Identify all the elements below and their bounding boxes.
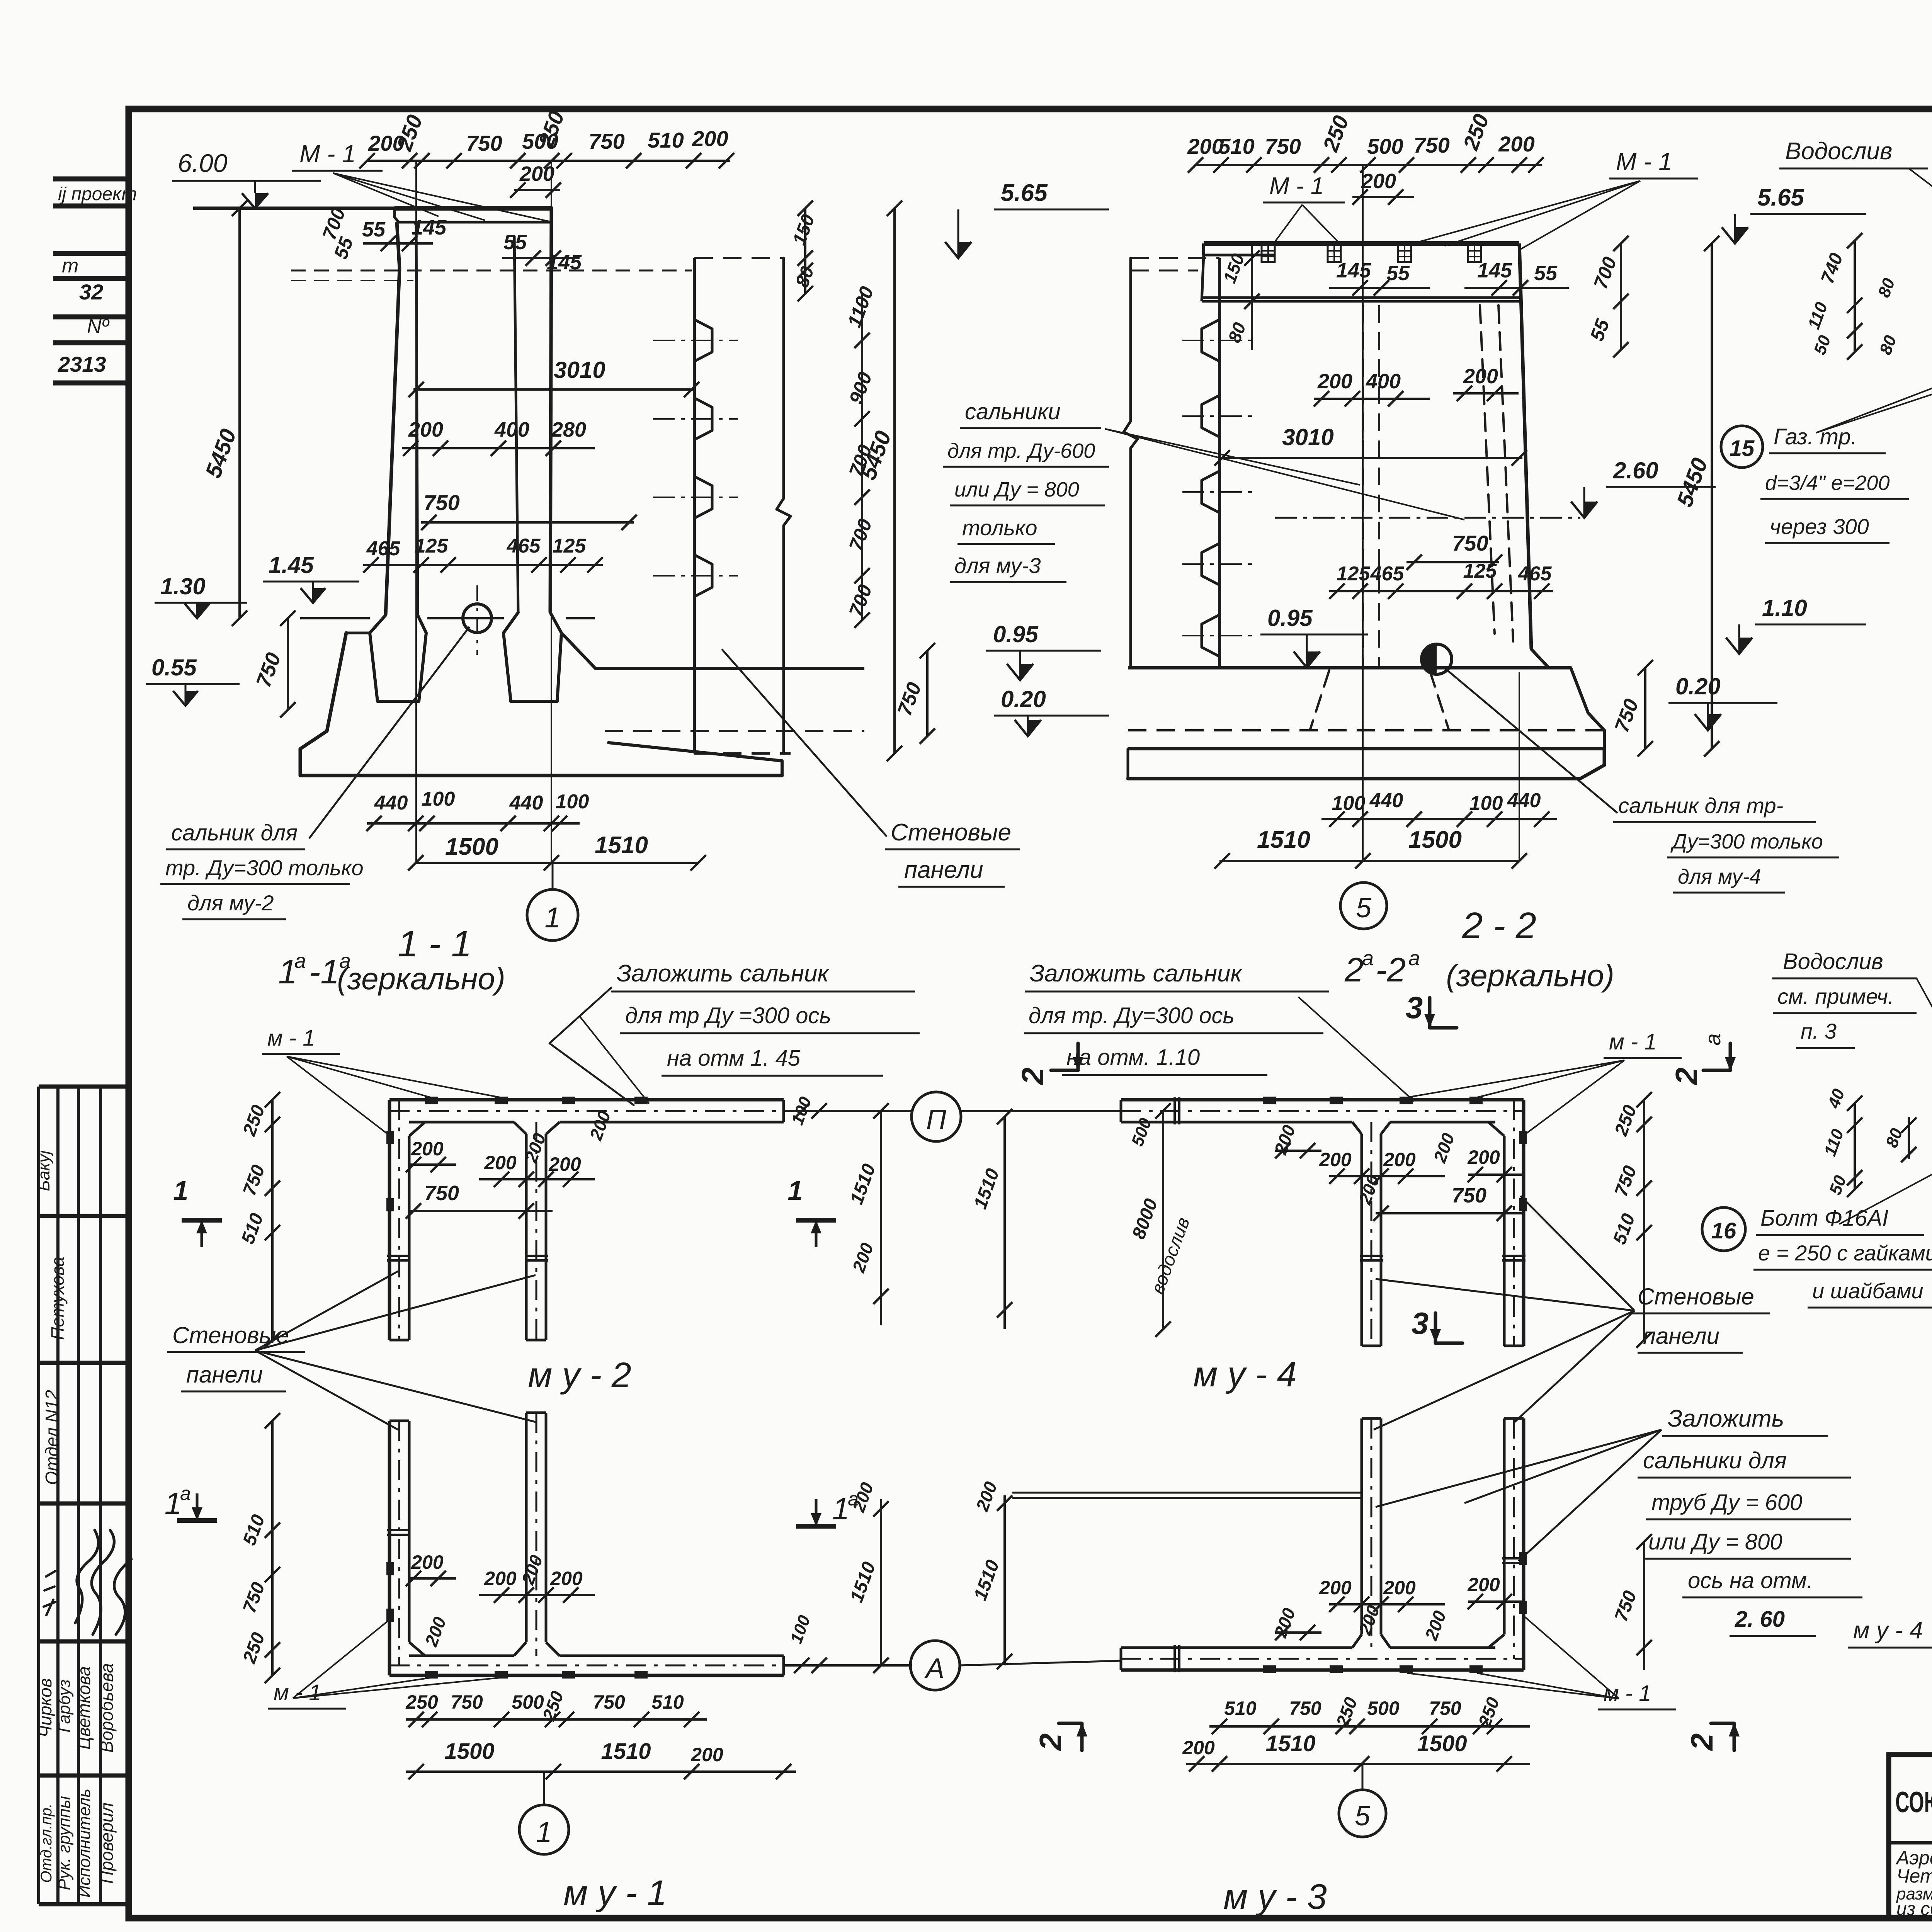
svg-text:только: только: [962, 515, 1037, 540]
hidden line at 5.45 level: [291, 270, 692, 272]
svg-text:или Ду = 800: или Ду = 800: [954, 478, 1079, 501]
svg-text:5: 5: [1356, 893, 1372, 923]
svg-text:500: 500: [1367, 1697, 1400, 1719]
svg-text:а: а: [848, 1488, 859, 1510]
right vertical dims: [880, 1499, 882, 1665]
svg-text:1510: 1510: [1265, 1731, 1315, 1756]
svg-text:750: 750: [1265, 134, 1301, 158]
svg-text:2: 2: [1669, 1068, 1704, 1086]
svg-text:1: 1: [165, 1486, 182, 1520]
corner chamfers: [1488, 1634, 1504, 1648]
svg-text:510: 510: [651, 1691, 684, 1713]
MU-2 left wall band: [388, 1100, 391, 1340]
axis bubble 5: [1339, 1790, 1386, 1837]
axis bubble P: [912, 1092, 961, 1141]
section marks 1a: [177, 1518, 217, 1523]
svg-text:Отд.гл.пр.: Отд.гл.пр.: [38, 1803, 55, 1883]
svg-text:125: 125: [1337, 563, 1371, 585]
svg-text:для му-4: для му-4: [1678, 865, 1761, 888]
svg-text:2. 60: 2. 60: [1735, 1607, 1785, 1632]
svg-text:Гарбуз: Гарбуз: [55, 1679, 74, 1733]
svg-text:а: а: [294, 949, 306, 973]
svg-text:м у - 1: м у - 1: [563, 1873, 667, 1913]
anchor marks M-1: [1263, 1097, 1276, 1104]
svg-text:Заложить сальник: Заложить сальник: [617, 960, 830, 987]
svg-text:Проверил: Проверил: [97, 1803, 117, 1884]
svg-text:100: 100: [1332, 792, 1366, 815]
svg-text:-1: -1: [309, 952, 339, 991]
svg-text:100: 100: [422, 788, 455, 810]
svg-text:панели: панели: [1643, 1323, 1719, 1349]
svg-text:750: 750: [1452, 531, 1488, 555]
svg-text:400: 400: [494, 418, 529, 441]
svg-text:1: 1: [544, 901, 560, 934]
svg-text:200: 200: [1383, 1149, 1416, 1170]
svg-text:ij проект: ij проект: [58, 184, 137, 204]
svg-text:750: 750: [423, 490, 459, 515]
svg-text:Петухова: Петухова: [48, 1257, 68, 1340]
svg-text:200: 200: [1498, 132, 1534, 156]
left dims 40/110/50 + 80: [1854, 1103, 1856, 1189]
svg-text:200: 200: [411, 1551, 444, 1573]
svg-text:1510: 1510: [595, 832, 648, 859]
svg-text:е = 250 с гайками: е = 250 с гайками: [1758, 1241, 1932, 1265]
note: gas pipe (15): [1721, 426, 1763, 468]
anchor M-1 embed: [1468, 245, 1481, 262]
svg-text:500: 500: [1367, 134, 1403, 158]
svg-text:400: 400: [1366, 370, 1401, 393]
footing: [1128, 666, 1571, 670]
MU-2 top wall band: [389, 1098, 784, 1102]
svg-text:55: 55: [1386, 262, 1410, 285]
svg-text:Четырехкоридорные с: Четырехкоридорные с: [1896, 1865, 1932, 1887]
svg-text:2.60: 2.60: [1613, 457, 1658, 483]
MU-3 left-mid wall band: [1361, 1418, 1363, 1634]
svg-text:Рук. группы: Рук. группы: [55, 1796, 74, 1890]
anchor marks M-1: [1263, 1665, 1276, 1673]
svg-text:0.95: 0.95: [1267, 605, 1313, 631]
svg-text:15: 15: [1730, 436, 1755, 461]
MU-1 bottom wall band: [389, 1674, 784, 1677]
svg-text:0.55: 0.55: [151, 655, 197, 680]
svg-text:55: 55: [1534, 262, 1558, 285]
vertical dim 5450: [1711, 243, 1713, 749]
anchor M-1 embed: [1262, 245, 1275, 262]
left margin stamp: upper rows: [53, 177, 129, 182]
svg-text:труб Ду = 600: труб Ду = 600: [1651, 1490, 1802, 1515]
cap band: [1202, 255, 1204, 301]
MU-1 left wall band: [388, 1421, 391, 1675]
svg-text:панели: панели: [186, 1362, 263, 1388]
svg-text:Заложить: Заложить: [1668, 1405, 1784, 1432]
left vertical dims 740/110/80/50: [1854, 241, 1856, 352]
svg-text:Бакуj: Бакуj: [34, 1150, 53, 1191]
svg-text:1: 1: [788, 1175, 803, 1206]
tower walls: [1519, 243, 1531, 649]
svg-text:1: 1: [536, 1816, 552, 1848]
svg-text:а: а: [1701, 1033, 1725, 1045]
svg-text:3010: 3010: [1282, 424, 1333, 450]
axis bubble 1: [519, 1805, 569, 1854]
svg-text:М - 1: М - 1: [1616, 148, 1672, 175]
svg-text:200: 200: [1467, 1574, 1500, 1595]
svg-text:на отм. 1.10: на отм. 1.10: [1066, 1045, 1200, 1070]
svg-text:а: а: [180, 1483, 191, 1504]
svg-text:510: 510: [1218, 134, 1254, 158]
svg-text:500: 500: [512, 1691, 544, 1713]
svg-text:Ду=300 только: Ду=300 только: [1670, 830, 1823, 853]
svg-text:145: 145: [1477, 259, 1512, 282]
svg-text:для му-2: для му-2: [187, 891, 274, 915]
axis bubble 5: [1340, 883, 1387, 929]
svg-text:0.95: 0.95: [993, 621, 1039, 647]
svg-text:200: 200: [692, 126, 728, 151]
svg-text:м - 1: м - 1: [1604, 1681, 1651, 1706]
MU-2 middle wall band: [525, 1134, 528, 1340]
svg-text:сальники: сальники: [965, 399, 1061, 424]
svg-text:200: 200: [1463, 365, 1498, 388]
svg-text:750: 750: [593, 1691, 625, 1713]
svg-text:п. 3: п. 3: [1801, 1019, 1837, 1043]
svg-text:СОЮЗВОДОКАНАЛПРОЕКТ: СОЮЗВОДОКАНАЛПРОЕКТ: [1895, 1786, 1932, 1819]
left dim chain 510/750/250: [271, 1421, 274, 1675]
svg-text:2313: 2313: [58, 352, 106, 376]
right vertical dim chains: [804, 208, 806, 294]
gland circle (salnik Du300): [463, 604, 492, 633]
svg-text:сальник для тр-: сальник для тр-: [1618, 793, 1783, 818]
signatures: [75, 1530, 99, 1623]
svg-text:200: 200: [550, 1568, 583, 1589]
svg-text:440: 440: [1369, 789, 1403, 812]
svg-text:5.65: 5.65: [1001, 180, 1048, 206]
svg-text:200: 200: [484, 1152, 517, 1173]
axis reference line: [1012, 1492, 1362, 1494]
svg-text:200: 200: [408, 418, 443, 441]
vertical dim 5450 left: [238, 208, 241, 618]
top dimension chain: [367, 160, 730, 162]
axis bubble A: [910, 1641, 960, 1690]
svg-text:200: 200: [1467, 1146, 1500, 1168]
svg-text:панели: панели: [904, 857, 983, 883]
svg-text:750: 750: [588, 129, 624, 153]
svg-text:Стеновые: Стеновые: [172, 1322, 289, 1348]
svg-text:750: 750: [1413, 133, 1449, 157]
svg-text:0.20: 0.20: [1675, 673, 1721, 699]
svg-text:6.00: 6.00: [178, 149, 228, 177]
svg-text:сальники для: сальники для: [1643, 1447, 1787, 1473]
svg-text:750: 750: [424, 1182, 459, 1205]
svg-text:1 - 1: 1 - 1: [398, 923, 472, 964]
svg-text:200: 200: [484, 1568, 517, 1589]
MU-3 bottom wall band: [1121, 1668, 1524, 1672]
left margin stamp: lower signature block: [37, 1087, 40, 1904]
svg-text:1500: 1500: [1408, 827, 1462, 853]
svg-text:Воробьева: Воробьева: [97, 1663, 117, 1753]
callout 16 bolt text: [1702, 1207, 1745, 1251]
svg-text:1.10: 1.10: [1762, 595, 1807, 621]
svg-text:55: 55: [503, 231, 527, 254]
corner chamfers: [409, 1642, 425, 1656]
svg-text:через 300: через 300: [1770, 514, 1869, 539]
svg-text:м у - 2: м у - 2: [528, 1355, 631, 1395]
svg-text:(зеркально): (зеркально): [1446, 958, 1614, 993]
svg-text:510: 510: [648, 128, 684, 152]
svg-text:440: 440: [509, 792, 543, 814]
svg-text:м у - 3: м у - 3: [1223, 1877, 1327, 1917]
anchor marks M-1: [425, 1671, 438, 1679]
svg-text:Заложить сальник: Заложить сальник: [1030, 960, 1243, 987]
right vertical dims 1510/200: [880, 1111, 882, 1325]
MU-1 middle wall band: [525, 1413, 528, 1642]
svg-text:для тр. Ду-600: для тр. Ду-600: [947, 439, 1095, 463]
svg-text:Водослив: Водослив: [1785, 138, 1892, 165]
svg-text:1510: 1510: [1257, 827, 1310, 853]
svg-text:5: 5: [1355, 1801, 1371, 1832]
svg-text:1: 1: [173, 1175, 189, 1206]
svg-text:2: 2: [1033, 1733, 1068, 1752]
svg-text:145: 145: [1336, 259, 1371, 282]
anchor marks M-1: [425, 1097, 438, 1104]
svg-text:55: 55: [362, 218, 386, 241]
top dimension chain: [1196, 164, 1542, 166]
svg-text:М - 1: М - 1: [299, 140, 356, 168]
svg-text:Nº: Nº: [87, 315, 110, 338]
svg-text:см. примеч.: см. примеч.: [1777, 984, 1894, 1009]
svg-text:200: 200: [1317, 370, 1352, 393]
axis bubble 1: [527, 889, 578, 940]
tower cap with anchor embeds: [1204, 241, 1519, 246]
svg-text:а: а: [1408, 947, 1420, 970]
svg-text:3: 3: [1406, 990, 1423, 1025]
svg-text:125: 125: [1463, 560, 1497, 582]
svg-text:для тр. Ду=300 ось: для тр. Ду=300 ось: [1029, 1003, 1235, 1028]
svg-text:Отдел N12: Отдел N12: [42, 1390, 62, 1485]
svg-text:200: 200: [1319, 1149, 1352, 1170]
svg-text:Цветкова: Цветкова: [74, 1666, 94, 1750]
svg-text:1510: 1510: [601, 1739, 651, 1764]
svg-text:Стеновые: Стеновые: [1638, 1284, 1754, 1310]
base slab: [346, 632, 370, 634]
svg-text:м у - 4: м у - 4: [1193, 1355, 1297, 1394]
vodosliv 8000 vertical dim: [1162, 1111, 1164, 1329]
corner chamfers: [1488, 1122, 1504, 1136]
svg-text:200: 200: [1319, 1577, 1352, 1599]
vertical dim 750: [287, 618, 289, 710]
svg-text:Чирков: Чирков: [35, 1678, 55, 1737]
svg-text:750: 750: [1429, 1697, 1461, 1719]
svg-text:465: 465: [366, 537, 401, 560]
right dim chain 750: [1643, 1542, 1645, 1670]
svg-text:тр. Ду=300 только: тр. Ду=300 только: [165, 855, 364, 880]
right dim chain 250/750/510: [1643, 1100, 1645, 1340]
svg-text:125: 125: [415, 535, 449, 557]
corner chamfers: [409, 1122, 425, 1136]
svg-text:100: 100: [556, 791, 589, 813]
vertical dim 750 right: [1644, 668, 1646, 749]
svg-text:1500: 1500: [444, 1739, 494, 1764]
svg-text:200: 200: [411, 1138, 444, 1160]
svg-text:200: 200: [1182, 1737, 1215, 1759]
svg-text:сальник для: сальник для: [171, 820, 298, 845]
svg-text:Исполнитель: Исполнитель: [75, 1789, 94, 1898]
svg-text:440: 440: [1507, 789, 1541, 812]
svg-text:1: 1: [832, 1492, 850, 1526]
svg-text:465: 465: [507, 535, 541, 557]
svg-text:750: 750: [451, 1691, 483, 1713]
svg-text:250: 250: [405, 1691, 438, 1713]
svg-text:м - 1: м - 1: [1609, 1029, 1657, 1054]
ground level line 6.00: [193, 207, 553, 210]
svg-text:и шайбами: и шайбами: [1812, 1279, 1923, 1303]
anchor M-1 embed: [1328, 245, 1341, 262]
svg-text:465: 465: [1518, 563, 1552, 585]
svg-text:м у - 4: м у - 4: [1853, 1617, 1923, 1644]
svg-text:200: 200: [690, 1744, 723, 1765]
svg-text:750: 750: [1452, 1184, 1486, 1207]
wall panel with shear keys: [693, 258, 696, 753]
svg-text:125: 125: [553, 535, 587, 557]
svg-text:d=3/4" e=200: d=3/4" e=200: [1765, 471, 1889, 495]
title block: [1889, 1755, 1932, 1918]
svg-text:(зеркально): (зеркально): [337, 961, 505, 996]
svg-text:2: 2: [1015, 1068, 1050, 1086]
svg-text:m: m: [62, 255, 78, 277]
svg-text:200: 200: [1383, 1577, 1416, 1599]
svg-text:из сборного железобетона: из сборного железобетона: [1896, 1899, 1932, 1919]
svg-text:1500: 1500: [445, 833, 498, 860]
svg-text:440: 440: [374, 792, 408, 814]
svg-text:для му-3: для му-3: [954, 553, 1041, 578]
svg-text:Болт Ф16АI: Болт Ф16АI: [1760, 1206, 1888, 1231]
svg-text:А: А: [924, 1653, 944, 1684]
svg-text:0.20: 0.20: [1001, 686, 1046, 712]
svg-text:а: а: [1362, 947, 1374, 970]
tower cap: [395, 206, 551, 211]
svg-text:750: 750: [466, 131, 502, 155]
svg-text:465: 465: [1370, 563, 1405, 585]
svg-text:ось на отм.: ось на отм.: [1688, 1568, 1813, 1593]
svg-text:м - 1: м - 1: [267, 1026, 315, 1051]
svg-text:2: 2: [1344, 951, 1364, 989]
svg-text:3010: 3010: [554, 357, 605, 383]
tower tapered walls: [397, 222, 400, 269]
svg-text:1.45: 1.45: [269, 552, 314, 578]
svg-text:или Ду = 800: или Ду = 800: [1648, 1529, 1782, 1554]
svg-text:200: 200: [1361, 170, 1396, 193]
svg-text:-2: -2: [1376, 951, 1406, 989]
MU-4 top wall band: [1121, 1098, 1524, 1102]
svg-text:1500: 1500: [1417, 1731, 1467, 1756]
svg-text:16: 16: [1711, 1218, 1736, 1243]
anchor M-1 embed: [1398, 245, 1411, 262]
svg-text:280: 280: [551, 418, 586, 441]
svg-text:м - 1: м - 1: [274, 1680, 321, 1705]
svg-text:32: 32: [79, 280, 103, 304]
svg-text:Водослив: Водослив: [1783, 949, 1883, 974]
svg-text:П: П: [926, 1104, 947, 1135]
svg-text:510: 510: [1224, 1697, 1257, 1719]
svg-text:5.65: 5.65: [1757, 184, 1804, 211]
footing pedestals: [370, 615, 426, 701]
MU-4 right wall band: [1522, 1100, 1526, 1346]
svg-text:для тр Ду =300 ось: для тр Ду =300 ось: [625, 1003, 831, 1028]
svg-text:100: 100: [1469, 792, 1503, 815]
gland circle: [1422, 644, 1452, 674]
svg-text:Газ. тр.: Газ. тр.: [1774, 424, 1857, 449]
MU-3 right wall band: [1522, 1418, 1526, 1670]
section marks 1: [182, 1218, 222, 1223]
svg-text:1.30: 1.30: [160, 573, 206, 599]
svg-text:на отм 1. 45: на отм 1. 45: [667, 1046, 801, 1071]
svg-text:2: 2: [1685, 1733, 1719, 1752]
svg-text:750: 750: [1289, 1697, 1321, 1719]
view 2-2 left wall panel with keys: [1124, 258, 1138, 668]
svg-text:Стеновые: Стеновые: [891, 819, 1011, 846]
MU-4 left-mid wall band: [1361, 1134, 1363, 1346]
svg-text:М - 1: М - 1: [1269, 173, 1324, 199]
left dim chain 250/750/510: [271, 1100, 274, 1340]
svg-text:3: 3: [1412, 1306, 1429, 1340]
svg-text:2 - 2: 2 - 2: [1462, 905, 1536, 946]
